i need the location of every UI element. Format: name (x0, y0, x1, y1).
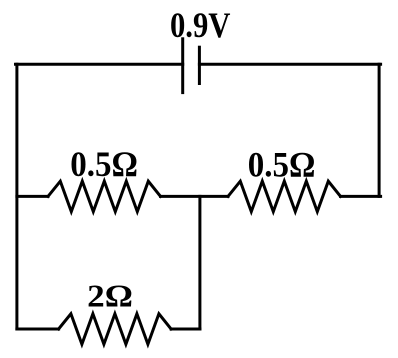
label 2ohm (87, 279, 133, 314)
wire middle-right lead (341, 195, 381, 198)
resistor R1 0.5ohm (left) (48, 181, 161, 211)
battery V1 left plate (long) (181, 39, 184, 93)
wire left vertical (15, 64, 18, 329)
label 0.5ohm left (70, 145, 138, 184)
label 0.5ohm right (248, 145, 316, 184)
svg-text:0.5Ω: 0.5Ω (248, 145, 316, 184)
wire top-right segment (199, 63, 380, 66)
wire middle-left lead (17, 195, 48, 198)
label 0.9V (170, 6, 231, 46)
svg-text:0.5Ω: 0.5Ω (70, 145, 138, 184)
wire bottom-right lead (171, 328, 200, 331)
wire middle-center segment (161, 195, 229, 198)
svg-text:2Ω: 2Ω (87, 279, 133, 314)
resistor R3 2ohm (bottom) (59, 314, 172, 344)
resistor R2 0.5ohm (right) (228, 181, 341, 211)
wire middle vertical (junction to bottom) (198, 196, 201, 329)
svg-text:0.9V: 0.9V (170, 6, 231, 46)
battery V1 right plate (short) (198, 47, 201, 83)
wire right vertical (378, 64, 381, 196)
wire top-left segment (16, 63, 183, 66)
wire bottom-left lead (17, 328, 59, 331)
